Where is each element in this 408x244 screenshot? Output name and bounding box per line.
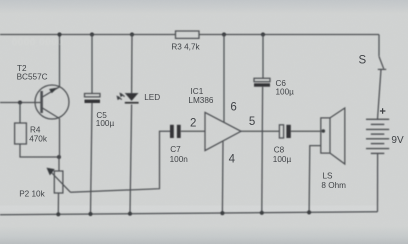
- wire pin 6 supply: [223, 35, 225, 123]
- label R3 value: [171, 43, 200, 52]
- wire emitter to rail: [59, 35, 61, 87]
- label C7 value: [170, 145, 189, 164]
- node junction C6/ground: [260, 211, 264, 215]
- node junction C5/ground: [88, 212, 92, 216]
- LED D1: [117, 35, 139, 214]
- switch S: [378, 35, 387, 120]
- label R4 value: [29, 125, 48, 143]
- pin number 5: [249, 116, 255, 128]
- node junction C5/rail: [90, 32, 94, 36]
- loudspeaker LS: [309, 108, 345, 212]
- node junction LS/ground: [307, 210, 311, 214]
- wire wiper to C7: [71, 131, 171, 192]
- label T2: [17, 64, 48, 82]
- label P2 value: [19, 190, 45, 199]
- wire top supply rail: [0, 34, 379, 36]
- label battery plus: [380, 108, 386, 113]
- node junction emitter/rail: [57, 32, 61, 36]
- op-amp IC1 LM386: [205, 112, 241, 150]
- wire input base line: [0, 102, 41, 104]
- ghost watermark on rail: [12, 37, 64, 47]
- resistor R3: [176, 31, 200, 38]
- label C5 value: [96, 111, 115, 128]
- pin number 6: [230, 101, 236, 113]
- node junction C6/rail: [261, 32, 265, 36]
- node junction on base line: [18, 101, 22, 105]
- node junction pin4/ground: [220, 211, 224, 215]
- node junction P2/ground: [56, 212, 60, 216]
- pin number 4: [229, 154, 236, 166]
- wire collector down: [58, 119, 61, 172]
- wire bottom ground rail: [0, 212, 378, 215]
- transistor T2: [35, 85, 69, 119]
- pin number 2: [190, 118, 196, 130]
- label S switch: [359, 55, 367, 67]
- node junction pin6/rail: [222, 32, 226, 36]
- node junction R4/collector: [57, 155, 61, 159]
- capacitor C8: [279, 125, 321, 138]
- node junction LED/rail: [130, 32, 134, 36]
- node junction LED/ground: [128, 212, 132, 216]
- potentiometer P2: [47, 168, 71, 214]
- battery BT 9V: [366, 119, 389, 212]
- label LED: [144, 93, 160, 102]
- label 9V: [391, 135, 404, 146]
- label LS value: [321, 172, 346, 190]
- capacitor C6: [254, 35, 270, 213]
- capacitor C5: [85, 35, 101, 215]
- label C8 value: [273, 145, 292, 164]
- label IC1 LM386: [188, 87, 213, 105]
- wire pin 4 ground: [221, 142, 224, 214]
- label C6 value: [276, 79, 295, 97]
- capacitor C7: [170, 125, 205, 138]
- wire output pin 5: [241, 130, 279, 132]
- resistor R4: [15, 103, 59, 158]
